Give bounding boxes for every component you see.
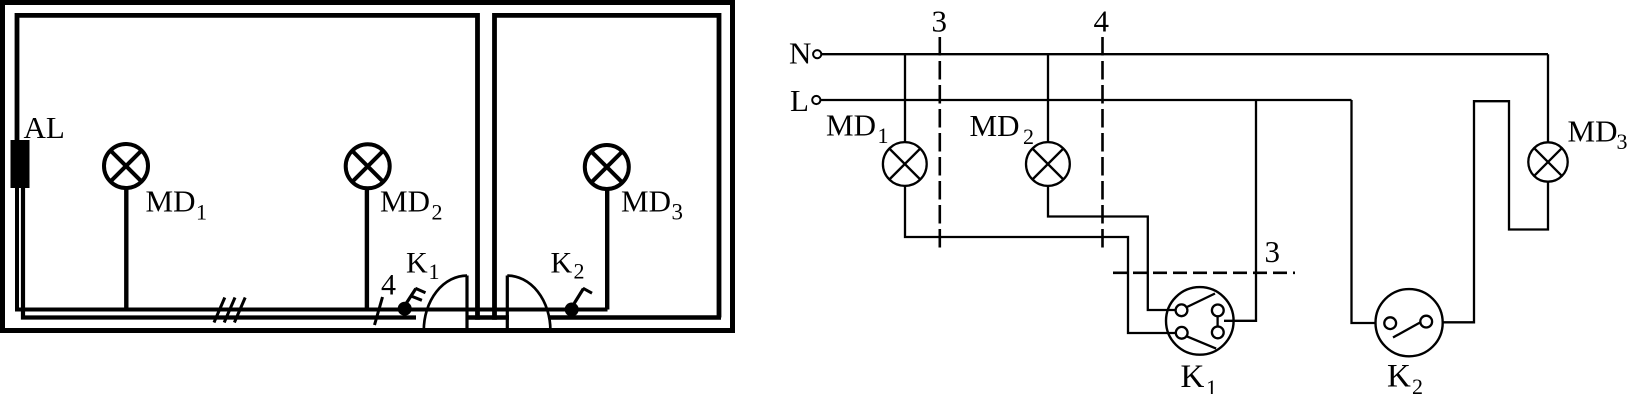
label MD1 (floor plan) (146, 184, 208, 225)
lamp MD1 (schematic) (883, 142, 927, 186)
wire: MD2 to K1 upper-left contact (1048, 186, 1176, 310)
wire: N drop to MD1 (904, 54, 906, 142)
svg-text:1: 1 (878, 123, 889, 148)
label MD2 (schematic) (970, 108, 1035, 149)
terminal N (813, 50, 821, 58)
label MD1 (schematic) (826, 108, 889, 149)
distribution box AL (11, 140, 30, 188)
svg-text:4: 4 (381, 269, 396, 302)
dashed line 3 (horizontal, at K1) (1113, 271, 1295, 274)
svg-text:1: 1 (196, 200, 207, 225)
svg-text:3: 3 (672, 200, 684, 225)
switch K1 (floor plan): dot with two-gang lever (398, 288, 426, 316)
label K1 (schematic) (1181, 359, 1218, 394)
label MD3 (schematic) (1568, 114, 1628, 155)
label K2 (schematic) (1387, 359, 1423, 394)
svg-text:K: K (1181, 359, 1205, 394)
svg-text:3: 3 (1265, 234, 1281, 269)
svg-text:1: 1 (1206, 375, 1217, 394)
room 1 inner wall bottom (left of door opening) (23, 186, 416, 318)
room 2 inner wall bottom (right of door opening) (549, 315, 721, 320)
wire: K2 right over bridge to MD3 bottom (1443, 101, 1549, 322)
svg-text:MD: MD (146, 184, 196, 219)
lamp MD3 (floor plan) (585, 145, 629, 310)
lamp MD1 (floor plan) (104, 144, 148, 310)
label MD3 (floor plan) (621, 184, 683, 225)
dashed section line 3 (vertical) (938, 37, 941, 248)
svg-text:2: 2 (1412, 374, 1423, 394)
door 1 swing arc (424, 276, 467, 331)
svg-text:L: L (790, 83, 809, 118)
svg-text:MD: MD (1568, 114, 1618, 149)
label K1 (floor plan) (406, 247, 440, 285)
door 2 leaf (506, 276, 509, 331)
label MD2 (floor plan) (380, 184, 443, 225)
switch K1 (schematic) (1166, 287, 1234, 355)
svg-text:K: K (1387, 359, 1411, 394)
room 1 inner wall (top, left above AL, right) (17, 15, 478, 319)
room 2 inner wall (left, top, right) (495, 15, 720, 319)
wire: MD1 to K1 lower-left contact (905, 186, 1176, 333)
room 1 inner wall bottom (under door leaf + bridge to room 2 wall) (466, 315, 509, 320)
wire from AL along bottom of rooms (17, 186, 608, 310)
wire: L drop to K1 right side (1224, 100, 1256, 321)
wire: N drop to MD3 (1547, 54, 1549, 142)
lamp MD2 (floor plan) (346, 144, 390, 309)
svg-text:K: K (551, 247, 573, 280)
lamp MD3 (schematic) (1528, 142, 1567, 181)
three-wire tick marks /// (214, 298, 245, 323)
lamp MD2 (schematic) (1026, 142, 1070, 186)
outer wall rectangle (3, 3, 733, 331)
svg-text:K: K (406, 247, 428, 280)
svg-text:2: 2 (432, 200, 443, 225)
svg-text:MD: MD (380, 184, 430, 219)
switch K2 (schematic) (1376, 289, 1443, 356)
wire: N drop to MD2 (1047, 54, 1049, 142)
wire: L bus (821, 99, 1352, 101)
svg-text:N: N (789, 36, 811, 71)
svg-text:1: 1 (429, 259, 440, 284)
dashed section line 4 (vertical) (1101, 37, 1104, 248)
svg-text:MD: MD (970, 108, 1020, 143)
label K2 (floor plan) (551, 247, 585, 284)
svg-text:4: 4 (1094, 4, 1110, 39)
svg-text:AL: AL (24, 110, 65, 145)
svg-text:2: 2 (1023, 124, 1034, 149)
wire: L continues, drop to K2 left (1352, 100, 1376, 323)
svg-text:2: 2 (574, 259, 585, 284)
wire: N bus (822, 53, 1549, 55)
four-wire tick mark (375, 297, 383, 325)
svg-text:MD: MD (621, 184, 671, 219)
svg-text:3: 3 (932, 4, 948, 39)
switch K2 (floor plan): dot with single lever (565, 288, 592, 316)
svg-text:3: 3 (1617, 129, 1628, 154)
svg-text:MD: MD (826, 108, 876, 143)
door 2 swing arc (507, 276, 550, 331)
door 1 leaf (465, 276, 468, 331)
terminal L (812, 96, 820, 104)
